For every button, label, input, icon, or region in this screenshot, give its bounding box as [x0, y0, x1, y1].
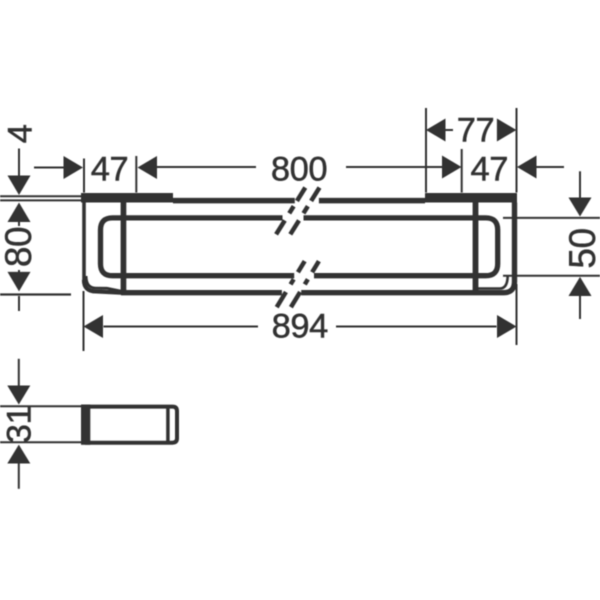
dimension 31 upper line [18, 359, 20, 386]
svg-text:31: 31 [0, 406, 38, 444]
extension line 80 bottom [0, 293, 71, 295]
svg-text:47: 47 [471, 151, 509, 189]
bracket inner curve left [86, 276, 121, 291]
bracket inner curve right [478, 275, 508, 289]
dimension 800 line right segment [346, 166, 442, 168]
bracket silhouette left bottom corner [84, 280, 123, 293]
svg-text:4: 4 [2, 124, 40, 143]
dimension 50 upper line [579, 171, 581, 198]
extension line 894 left [83, 291, 85, 351]
dimension 31 lower line [18, 463, 20, 489]
bottom edge left of break [121, 290, 282, 295]
break mark top slash 1 [276, 188, 305, 235]
svg-text:50: 50 [562, 228, 600, 268]
dimension 31 arrow down [7, 386, 30, 405]
dimension 47 left tail [34, 167, 64, 169]
dimension 47 left arrow right [64, 156, 84, 179]
extension line plate bottom (4 dim) [0, 199, 82, 201]
dimension 77 line [446, 129, 454, 131]
break mark bottom slash 2 [291, 261, 319, 307]
svg-text:80: 80 [0, 227, 39, 267]
break mark bottom slash 1 [277, 261, 305, 307]
dimension 80 arrow up [8, 203, 31, 223]
dimension 800 line left segment [157, 166, 256, 168]
dimension 50 lower line [579, 295, 581, 319]
top edge middle segment left of break [173, 198, 295, 204]
side view body outline [85, 407, 177, 443]
towel rail rounded rectangle [101, 218, 498, 276]
side view wall plate solid [81, 405, 90, 445]
dimension 4 line [18, 149, 20, 177]
dimension 80 stub below bottom line [18, 296, 20, 311]
dimension 31 arrow up [7, 445, 30, 464]
extension line rail bottom right (50 dim) [503, 275, 600, 277]
extension line left edge for 47 [83, 159, 85, 193]
dimension 894 arrow right [497, 315, 517, 338]
dimension 47 right arrow left [517, 156, 537, 179]
extension line rail top right (50 dim) [503, 217, 600, 219]
dimension 50 arrow down [569, 198, 592, 217]
wall plate left (thick) [81, 193, 173, 203]
dimension 894 line right segment [336, 326, 497, 328]
side view extension line top [0, 405, 81, 407]
side view extension line bottom [0, 441, 81, 443]
extension line plate top (4 dim) [0, 195, 82, 197]
dimension 80 line upper [18, 221, 20, 226]
svg-text:800: 800 [271, 151, 327, 189]
bracket silhouette left vertical edge [82, 203, 86, 282]
side view inner line [166, 407, 170, 443]
extension line for 47/800 at x136 [135, 156, 137, 193]
mounting post right [473, 202, 479, 291]
dimension 80 line lower [18, 270, 20, 273]
dimension 47 right tail [537, 166, 565, 168]
dimension 800 arrow right [442, 156, 462, 179]
break mark top slash 2 [290, 188, 319, 235]
extension line right edge (77/47) [516, 108, 518, 193]
extension line 77 left [425, 108, 427, 193]
top edge middle segment right of break [319, 198, 425, 204]
dimension 894 line left segment [104, 326, 259, 328]
extension line 894 right [516, 284, 518, 345]
wall plate right (thick) [425, 193, 517, 203]
dimension 77 arrow right [497, 119, 517, 142]
dimension 894 arrow left [84, 315, 104, 338]
extension line 800/47 right [461, 149, 463, 193]
svg-text:894: 894 [272, 308, 329, 346]
dimension 80 arrow down [8, 272, 31, 292]
dimension 47 left arrow left [138, 156, 158, 179]
svg-text:47: 47 [91, 151, 129, 189]
dimension 50 arrow up [569, 277, 592, 296]
mounting post left [121, 202, 127, 291]
bottom edge right of break incl. right corner and right edge [301, 203, 514, 293]
svg-text:77: 77 [457, 112, 495, 150]
dimension 77 arrow left [426, 119, 446, 142]
dimension 4 arrow down [8, 176, 31, 196]
